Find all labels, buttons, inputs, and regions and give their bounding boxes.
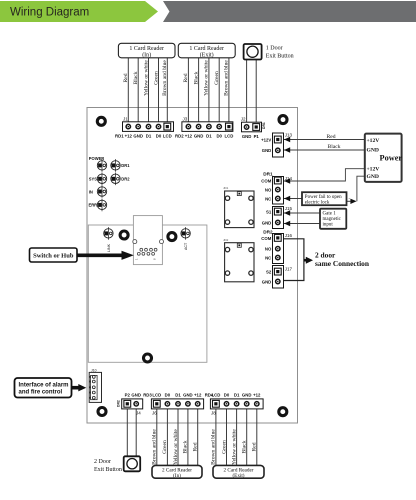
- svg-text:DR2: DR2: [121, 177, 130, 182]
- svg-text:Switch or Hub: Switch or Hub: [33, 253, 74, 260]
- svg-text:GND: GND: [242, 134, 252, 139]
- svg-text:and fire control: and fire control: [19, 390, 63, 396]
- svg-text:Wiring Diagram: Wiring Diagram: [10, 7, 89, 19]
- svg-text:Black: Black: [242, 440, 248, 453]
- svg-text:Green: Green: [162, 440, 168, 454]
- svg-text:Interface of alarm: Interface of alarm: [19, 382, 69, 388]
- svg-text:ACT: ACT: [184, 242, 188, 250]
- svg-text:J17: J17: [285, 267, 293, 272]
- svg-text:DR1: DR1: [263, 171, 273, 176]
- svg-text:Brown and blue: Brown and blue: [152, 429, 158, 465]
- svg-text:D1: D1: [234, 392, 240, 397]
- svg-text:DR2: DR2: [263, 229, 273, 234]
- svg-text:LCD: LCD: [163, 134, 172, 139]
- svg-text:electric lock: electric lock: [305, 201, 330, 206]
- svg-text:J8: J8: [211, 410, 216, 415]
- svg-text:D0: D0: [216, 134, 222, 139]
- svg-text:RD2: RD2: [175, 134, 184, 139]
- svg-text:LCD: LCD: [211, 392, 220, 397]
- svg-text:Red: Red: [326, 134, 335, 140]
- svg-text:input: input: [323, 222, 334, 227]
- svg-text:COM: COM: [261, 178, 271, 183]
- svg-text:COM: COM: [261, 236, 271, 241]
- svg-text:S2: S2: [266, 270, 272, 275]
- svg-text:same Connection: same Connection: [315, 259, 369, 268]
- svg-text:Black: Black: [183, 440, 189, 453]
- svg-text:Yellow or white: Yellow or white: [143, 60, 149, 96]
- svg-text:GND: GND: [262, 148, 272, 153]
- svg-text:DR1: DR1: [262, 122, 266, 129]
- svg-text:Power fail to open: Power fail to open: [305, 195, 342, 200]
- svg-text:2 Door: 2 Door: [94, 459, 111, 465]
- svg-text:(Exit): (Exit): [232, 472, 244, 479]
- svg-text:+12V: +12V: [367, 138, 380, 144]
- svg-text:GND: GND: [242, 392, 252, 397]
- svg-text:ERR: ERR: [89, 203, 98, 208]
- svg-text:S1: S1: [266, 210, 272, 215]
- svg-text:Brown and blue: Brown and blue: [211, 429, 217, 465]
- svg-text:LINK: LINK: [107, 243, 111, 252]
- svg-text:J16: J16: [285, 233, 293, 238]
- svg-text:(Exit): (Exit): [200, 51, 214, 58]
- svg-text:+12V: +12V: [261, 137, 271, 142]
- svg-text:JD1: JD1: [223, 186, 229, 190]
- svg-text:GND: GND: [262, 220, 272, 225]
- svg-text:LCD: LCD: [152, 392, 161, 397]
- svg-text:IN: IN: [89, 189, 93, 194]
- svg-text:NO: NO: [265, 188, 272, 193]
- svg-text:SYS: SYS: [89, 177, 97, 182]
- svg-text:GND: GND: [367, 148, 379, 154]
- svg-text:GND: GND: [131, 392, 141, 397]
- svg-text:GND: GND: [194, 134, 204, 139]
- svg-text:Green: Green: [153, 71, 159, 85]
- svg-text:Exit Button: Exit Button: [94, 467, 122, 473]
- svg-text:Brown and blue: Brown and blue: [224, 60, 230, 96]
- svg-text:DR2: DR2: [117, 400, 121, 407]
- svg-text:+12: +12: [253, 392, 261, 397]
- svg-text:+12V: +12V: [367, 166, 380, 172]
- svg-text:RD1: RD1: [115, 134, 124, 139]
- svg-text:Red: Red: [193, 442, 199, 451]
- svg-text:+12: +12: [185, 134, 193, 139]
- svg-text:J2: J2: [241, 117, 246, 122]
- svg-text:GND: GND: [367, 174, 379, 180]
- svg-text:LCD: LCD: [224, 134, 233, 139]
- svg-text:(In): (In): [173, 472, 181, 479]
- svg-text:GND: GND: [262, 279, 272, 284]
- svg-text:P1: P1: [254, 134, 260, 139]
- svg-text:J13: J13: [285, 133, 293, 138]
- svg-text:NC: NC: [265, 256, 271, 261]
- svg-text:D0: D0: [156, 134, 162, 139]
- svg-text:J3: J3: [183, 116, 188, 121]
- svg-text:1 Card Reader: 1 Card Reader: [129, 46, 164, 52]
- svg-text:magnetic: magnetic: [323, 217, 342, 222]
- svg-text:D0: D0: [165, 392, 171, 397]
- svg-text:NO: NO: [265, 247, 272, 252]
- svg-text:Yellow or white: Yellow or white: [231, 429, 237, 465]
- svg-text:+12: +12: [125, 134, 133, 139]
- svg-text:D1: D1: [146, 134, 152, 139]
- svg-text:DR1: DR1: [121, 163, 130, 168]
- svg-text:Black: Black: [133, 71, 139, 84]
- svg-text:J14: J14: [285, 176, 293, 181]
- svg-text:D0: D0: [224, 392, 230, 397]
- svg-text:D1: D1: [206, 134, 212, 139]
- svg-text:Red: Red: [252, 442, 258, 451]
- svg-text:NC: NC: [265, 196, 271, 201]
- svg-text:Black: Black: [193, 71, 199, 84]
- svg-text:Yellow or white: Yellow or white: [204, 60, 210, 96]
- svg-text:Red: Red: [183, 73, 189, 82]
- svg-text:GND: GND: [183, 392, 193, 397]
- svg-text:Red: Red: [123, 73, 129, 82]
- svg-text:GND: GND: [133, 134, 143, 139]
- svg-text:(In): (In): [142, 51, 151, 58]
- svg-text:JD2: JD2: [223, 238, 229, 242]
- svg-text:POWER: POWER: [89, 156, 105, 161]
- svg-text:J1: J1: [123, 116, 128, 121]
- svg-text:J10: J10: [91, 368, 97, 372]
- svg-text:Green: Green: [221, 440, 227, 454]
- svg-text:1 Card Reader: 1 Card Reader: [189, 46, 224, 52]
- svg-text:1 Door: 1 Door: [266, 45, 283, 51]
- svg-text:Yellow or white: Yellow or white: [173, 429, 179, 465]
- svg-text:Brown and blue: Brown and blue: [162, 60, 168, 96]
- svg-text:J15: J15: [285, 206, 293, 211]
- svg-text:RD3: RD3: [143, 392, 152, 397]
- svg-text:+12: +12: [194, 392, 202, 397]
- svg-text:J6: J6: [152, 410, 157, 415]
- svg-text:Power: Power: [380, 153, 403, 162]
- svg-text:J4: J4: [136, 410, 141, 415]
- svg-text:Black: Black: [327, 144, 340, 150]
- svg-text:Green: Green: [214, 71, 220, 85]
- svg-text:Gate 1: Gate 1: [323, 212, 337, 217]
- svg-text:D1: D1: [175, 392, 181, 397]
- svg-text:P2: P2: [125, 392, 131, 397]
- svg-text:Exit Button: Exit Button: [266, 53, 294, 59]
